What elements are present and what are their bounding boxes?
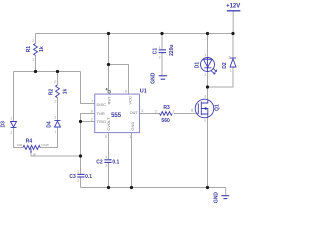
- svg-text:GND: GND: [151, 72, 157, 84]
- svg-text:CCW: CCW: [41, 143, 48, 147]
- diode D2: [230, 58, 236, 67]
- svg-text:3: 3: [141, 109, 143, 113]
- capacitor C2: [104, 160, 111, 163]
- resistor R3: [160, 112, 173, 116]
- node D1/D2/drain: [206, 85, 209, 88]
- svg-text:6: 6: [91, 110, 93, 114]
- svg-text:THR: THR: [97, 111, 105, 116]
- wire: THR pin jog: [81, 114, 96, 122]
- svg-text:560: 560: [161, 118, 170, 124]
- svg-text:C3: C3: [69, 174, 76, 180]
- svg-text:R4: R4: [26, 139, 33, 145]
- wire: R1 bottom stub: [35, 56, 37, 72]
- pot pin labels: [17, 143, 49, 156]
- svg-text:1: 1: [10, 116, 12, 120]
- node C2/ground rail: [107, 186, 110, 189]
- capacitor C3: [77, 174, 84, 177]
- diode D3: [11, 122, 17, 128]
- transistor pin labels: [191, 95, 206, 123]
- ground symbol at C1: [159, 76, 168, 79]
- node rail1/RST: [107, 32, 110, 35]
- wire: D1 to drain node: [207, 72, 209, 88]
- svg-text:D3: D3: [1, 121, 7, 128]
- node rail2/R1: [34, 70, 37, 73]
- svg-text:R3: R3: [163, 105, 170, 111]
- wire: C2 to ground rail: [108, 163, 110, 188]
- svg-text:Q1: Q1: [215, 104, 221, 111]
- wire: +12V down to RST: [108, 34, 110, 91]
- svg-text:D1: D1: [195, 62, 201, 69]
- potentiometer R4: [23, 145, 40, 153]
- svg-text:1: 1: [204, 53, 206, 57]
- capacitor C1: [159, 50, 166, 53]
- wire: +12V rail (top horizontal): [36, 33, 234, 35]
- svg-text:1: 1: [54, 130, 56, 134]
- svg-text:U1: U1: [140, 88, 147, 94]
- node wiper/TRIG: [79, 154, 82, 157]
- svg-text:D2: D2: [222, 62, 228, 69]
- svg-text:R2: R2: [49, 89, 55, 96]
- svg-text:5: 5: [105, 135, 107, 139]
- wire: +12V stub: [232, 11, 234, 33]
- wire: rail2 down to DISC pin: [81, 72, 96, 104]
- svg-text:1: 1: [54, 100, 56, 104]
- svg-text:CW: CW: [17, 143, 22, 147]
- svg-text:2: 2: [10, 131, 12, 135]
- svg-text:VCC: VCC: [127, 96, 132, 105]
- wire: R1 top stub: [35, 34, 37, 44]
- svg-text:1: 1: [32, 58, 34, 62]
- wire: R2 bottom to D4: [57, 98, 59, 121]
- svg-text:2: 2: [204, 73, 206, 77]
- svg-text:2: 2: [32, 39, 34, 43]
- power +12V bar: [227, 10, 241, 12]
- svg-text:555: 555: [111, 113, 122, 119]
- wire: drain node to Q1: [207, 87, 209, 99]
- wire: rail to LED D1: [207, 34, 209, 58]
- svg-text:2: 2: [229, 56, 231, 60]
- wire: TRIG pin: [81, 121, 96, 123]
- svg-text:220u: 220u: [169, 44, 175, 55]
- wire: rail to C1: [161, 34, 163, 50]
- svg-text:8: 8: [125, 90, 127, 94]
- svg-text:0.1: 0.1: [85, 174, 92, 180]
- wire: R3 to gate: [174, 113, 199, 115]
- svg-text:+12V: +12V: [226, 3, 240, 9]
- svg-text:CVOLT: CVOLT: [106, 117, 111, 131]
- svg-text:2: 2: [54, 115, 56, 119]
- wire: GND pin down to rail: [131, 133, 133, 188]
- svg-text:7: 7: [91, 100, 93, 104]
- svg-text:s: s: [204, 119, 206, 123]
- wire: R2 top stub: [57, 72, 59, 85]
- svg-text:d: d: [204, 95, 206, 99]
- wire: RST node to VCC pin: [109, 65, 129, 95]
- wire: rail to GND symbol stub: [225, 188, 227, 196]
- svg-text:1: 1: [105, 155, 107, 159]
- node source/ground rail: [206, 186, 209, 189]
- svg-text:1: 1: [173, 109, 175, 113]
- wire: pot wiper to TRIG node: [31, 154, 81, 157]
- svg-text:1k: 1k: [39, 46, 45, 52]
- MOSFET Q1: [195, 99, 214, 118]
- diode D4: [55, 121, 61, 128]
- node RST/VCC: [107, 63, 110, 66]
- wire: CVOLT pin down to C2: [108, 133, 110, 160]
- wire: C1 to GND: [161, 53, 163, 75]
- resistor R1: [34, 43, 38, 55]
- svg-text:GND: GND: [130, 122, 135, 131]
- wire: D2 bottom to drain node: [208, 68, 234, 88]
- wire: bottom ground rail: [81, 187, 226, 189]
- svg-text:2: 2: [91, 118, 93, 122]
- node GNDpin/ground rail: [130, 186, 133, 189]
- svg-text:2: 2: [105, 164, 107, 168]
- svg-text:g: g: [191, 108, 193, 112]
- wire: D4 to pot CCW: [40, 128, 58, 148]
- wire: Q1 source to ground rail: [207, 118, 209, 188]
- svg-text:RST: RST: [107, 96, 112, 105]
- svg-text:GND: GND: [213, 192, 219, 204]
- svg-text:1: 1: [77, 170, 79, 174]
- svg-text:W: W: [33, 152, 36, 156]
- resistor R2: [56, 85, 60, 98]
- wire: rail2 horizontal left: [14, 71, 81, 73]
- svg-text:2: 2: [54, 80, 56, 84]
- wire: OUT pin to R3: [140, 113, 160, 115]
- svg-text:1: 1: [230, 69, 232, 73]
- node rail1/C1: [160, 32, 163, 35]
- node rail1/D1: [206, 32, 209, 35]
- svg-text:2: 2: [77, 179, 79, 183]
- RST inversion bubble: [108, 91, 111, 94]
- svg-text:2: 2: [159, 56, 161, 60]
- wire: left branch to D3: [13, 72, 15, 122]
- op-amp U1 555 timer box: [95, 94, 140, 133]
- svg-text:2: 2: [155, 109, 157, 113]
- node THR/TRIG: [79, 120, 82, 123]
- svg-text:C2: C2: [96, 159, 103, 165]
- pin name texts inside U1: [97, 96, 139, 131]
- svg-text:1: 1: [159, 46, 161, 50]
- svg-text:TRIG: TRIG: [97, 119, 107, 124]
- svg-text:4: 4: [106, 87, 108, 91]
- ground symbol bottom right: [221, 196, 229, 199]
- wire: C3 bottom to ground rail: [80, 178, 82, 188]
- svg-text:DISC: DISC: [97, 102, 107, 107]
- node rail1/+12V/D2: [231, 32, 234, 35]
- LED D1: [201, 58, 217, 75]
- wire: D3 to pot CW: [14, 128, 24, 148]
- svg-text:1k: 1k: [62, 89, 68, 95]
- node rail2/R2: [56, 70, 59, 73]
- svg-text:1: 1: [129, 135, 131, 139]
- wire: TRIG down to wiper node and C3: [80, 122, 82, 174]
- svg-text:R1: R1: [26, 46, 32, 53]
- wire: rail to D2: [232, 34, 234, 59]
- svg-text:D4: D4: [47, 121, 53, 128]
- svg-text:0.1: 0.1: [112, 159, 119, 165]
- svg-text:OUT: OUT: [130, 111, 139, 115]
